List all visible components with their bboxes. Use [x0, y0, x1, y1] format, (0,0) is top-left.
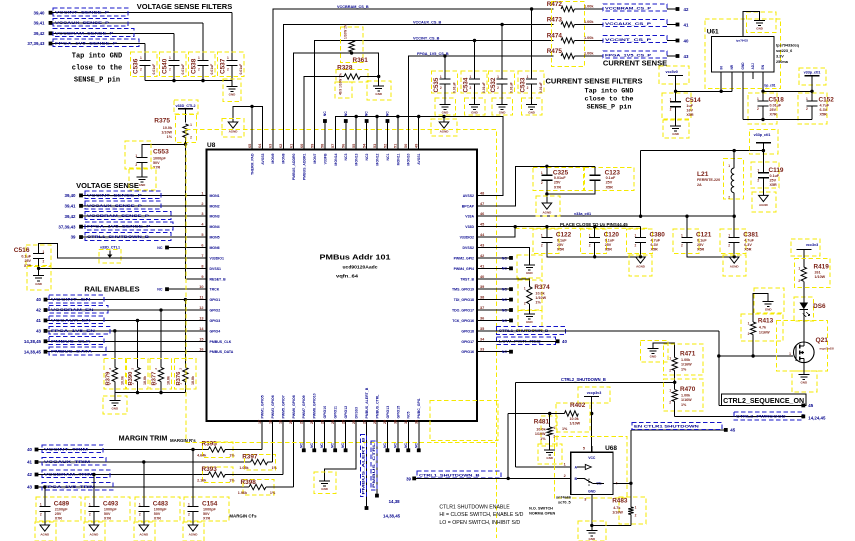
analog ground below	[134, 522, 155, 541]
svg-text:close to the: close to the	[72, 65, 122, 73]
svg-text:AGND: AGND	[229, 129, 239, 133]
analog ground below C325	[546, 180, 548, 203]
svg-text:5: 5	[201, 233, 203, 237]
svg-text:39: 39	[71, 235, 76, 240]
ground	[465, 98, 486, 115]
svg-text:10.0k: 10.0k	[120, 376, 124, 385]
svg-text:30: 30	[394, 420, 398, 424]
svg-text:65: 65	[248, 144, 252, 148]
svg-text:38: 38	[480, 296, 484, 300]
svg-text:1/10W: 1/10W	[535, 432, 546, 436]
svg-text:PMBUS_ALERT_B: PMBUS_ALERT_B	[365, 387, 369, 418]
svg-text:VCC: VCC	[588, 456, 596, 460]
svg-text:2: 2	[89, 512, 91, 516]
capacitor C154 1000pF	[184, 497, 229, 521]
svg-text:39,41: 39,41	[34, 21, 46, 26]
svg-text:3: 3	[201, 212, 203, 216]
svg-text:NC: NC	[323, 111, 327, 116]
svg-text:1: 1	[589, 233, 591, 237]
svg-text:1%: 1%	[272, 466, 278, 470]
svg-text:2: 2	[40, 512, 42, 516]
svg-text:NC1: NC1	[386, 153, 390, 160]
svg-text:59: 59	[310, 144, 314, 148]
svg-text:42: 42	[27, 472, 32, 477]
svg-text:DS6: DS6	[813, 303, 826, 310]
svg-text:R374: R374	[534, 284, 550, 291]
pullup ground rail	[115, 392, 186, 394]
svg-text:250ma: 250ma	[776, 60, 789, 64]
svg-text:45: 45	[730, 428, 735, 433]
svg-text:R397: R397	[242, 453, 258, 460]
svg-text:X7R: X7R	[55, 517, 63, 521]
svg-text:X7R: X7R	[770, 113, 778, 117]
svg-text:GPIO16: GPIO16	[461, 350, 474, 354]
svg-text:63: 63	[269, 144, 273, 148]
svg-text:0.01uF: 0.01uF	[539, 82, 543, 93]
capacitor C483 1000pF	[135, 497, 180, 521]
svg-text:R377: R377	[152, 372, 158, 386]
svg-text:43: 43	[36, 328, 41, 333]
svg-text:20: 20	[289, 420, 293, 424]
svg-text:MON10: MON10	[407, 153, 411, 165]
svg-text:VCCINT_TRIM: VCCINT_TRIM	[44, 447, 89, 452]
capacitor C516 0.1uF	[26, 245, 51, 266]
svg-text:TCK_GPIO16: TCK_GPIO16	[452, 319, 474, 323]
svg-text:2100pF: 2100pF	[55, 507, 68, 511]
svg-text:C533: C533	[520, 77, 527, 92]
resistor R397 1.05k	[245, 455, 276, 471]
svg-text:U8: U8	[207, 142, 216, 149]
svg-text:NC2: NC2	[365, 153, 369, 160]
svg-text:2: 2	[541, 243, 543, 247]
bottom NC pins	[303, 421, 305, 450]
svg-text:PWM5_GPIO7: PWM5_GPIO7	[281, 395, 285, 418]
svg-text:MON5: MON5	[210, 236, 220, 240]
analog ground below C119	[752, 192, 776, 212]
svg-text:37: 37	[480, 306, 484, 310]
svg-text:1%: 1%	[535, 301, 541, 305]
svg-text:40: 40	[480, 275, 484, 279]
capacitor C532 0.01uF	[500, 23, 503, 26]
wire U61 pins down	[720, 72, 722, 91]
svg-text:NC: NC	[414, 443, 418, 448]
svg-text:27: 27	[362, 420, 366, 424]
svg-text:X7R: X7R	[203, 517, 211, 521]
capacitor C538 0.01uF	[189, 52, 216, 77]
svg-text:MON1: MON1	[210, 194, 220, 198]
svg-text:R361: R361	[353, 57, 369, 64]
svg-text:NC: NC	[331, 443, 335, 448]
svg-text:18.8k: 18.8k	[191, 376, 195, 385]
svg-text:MARGIN R's: MARGIN R's	[170, 438, 196, 443]
svg-text:6: 6	[201, 244, 203, 248]
svg-text:0.01uF: 0.01uF	[482, 82, 486, 93]
svg-text:40: 40	[562, 339, 567, 344]
svg-text:NC: NC	[157, 246, 163, 250]
svg-text:MARGIN TRIM: MARGIN TRIM	[119, 433, 168, 442]
svg-text:NC: NC	[502, 288, 508, 292]
svg-text:19: 19	[279, 420, 283, 424]
svg-text:37,39,43: 37,39,43	[27, 41, 45, 46]
svg-text:NC5: NC5	[407, 411, 411, 418]
svg-text:42: 42	[36, 308, 41, 313]
svg-text:MON8: MON8	[282, 153, 286, 163]
svg-text:2: 2	[527, 86, 529, 90]
svg-text:1000pF: 1000pF	[104, 507, 117, 511]
wire	[231, 13, 233, 61]
svg-text:DVSS1: DVSS1	[210, 267, 222, 271]
svg-text:1.00k: 1.00k	[681, 358, 691, 362]
svg-text:1/16W: 1/16W	[759, 331, 770, 335]
svg-text:TDO_GPIO17: TDO_GPIO17	[452, 309, 474, 313]
svg-text:5: 5	[583, 446, 585, 450]
svg-text:9: 9	[201, 275, 203, 279]
wire	[51, 32, 175, 34]
DVSS3 pin 26 to ground	[325, 421, 356, 481]
svg-text:GPIO17: GPIO17	[461, 340, 474, 344]
resistor R483 4.7k	[619, 497, 646, 524]
net VCCBRAM_CS_P	[603, 4, 667, 11]
net EN_CTLR1_SHUTDOWN	[630, 430, 632, 483]
svg-text:2: 2	[188, 512, 190, 516]
wire BPCAP pin 47	[477, 166, 595, 206]
svg-text:35: 35	[480, 327, 484, 331]
svg-text:50: 50	[404, 144, 408, 148]
svg-text:SENSE_P pin: SENSE_P pin	[587, 104, 632, 112]
svg-text:v33D_CTL1: v33D_CTL1	[100, 245, 120, 249]
analog ground arrow on AVSS line	[442, 115, 445, 118]
svg-text:2: 2	[589, 243, 591, 247]
svg-text:37,39,43: 37,39,43	[58, 224, 76, 229]
svg-text:39,42: 39,42	[34, 31, 46, 36]
wire	[144, 66, 146, 81]
svg-text:1000pF: 1000pF	[154, 507, 167, 511]
svg-text:TRCK: TRCK	[210, 288, 220, 292]
svg-text:1: 1	[806, 97, 808, 101]
svg-text:NORM& OPEN: NORM& OPEN	[529, 511, 555, 515]
svg-text:CURRENT SENSE: CURRENT SENSE	[603, 58, 667, 67]
wire AVSS pin	[376, 117, 378, 150]
resistor R398 1.96k	[243, 480, 274, 496]
svg-text:AGND: AGND	[89, 532, 99, 536]
svg-text:HI = CLOSE SWITCH, ENABLE S/D: HI = CLOSE SWITCH, ENABLE S/D	[439, 512, 523, 518]
wire CTRL2_SHUTDOWN_B to U68 pin A	[514, 382, 516, 467]
wire	[184, 382, 186, 393]
svg-text:GND: GND	[471, 111, 479, 115]
svg-text:47: 47	[480, 202, 484, 206]
wire AVSS pin	[355, 117, 357, 150]
svg-text:MON13: MON13	[355, 153, 359, 165]
capacitor C121 0.1uF	[673, 229, 699, 254]
svg-text:43: 43	[684, 54, 689, 59]
svg-text:AGND: AGND	[40, 532, 50, 536]
svg-text:2: 2	[440, 86, 442, 90]
svg-text:NC: NC	[320, 443, 324, 448]
svg-text:1: 1	[190, 123, 192, 127]
svg-text:N.O. SWITCH: N.O. SWITCH	[529, 506, 553, 510]
svg-text:40: 40	[684, 38, 689, 43]
svg-text:GPIO13: GPIO13	[386, 406, 390, 419]
svg-text:TDI_GPIO18: TDI_GPIO18	[454, 298, 474, 302]
wire	[173, 33, 175, 60]
svg-text:V33DIO2: V33DIO2	[460, 236, 474, 240]
ground at R471 top	[641, 341, 669, 363]
svg-text:2: 2	[201, 202, 203, 206]
svg-text:61: 61	[289, 144, 293, 148]
svg-text:R475: R475	[547, 48, 563, 55]
wire V33DIO1 pin 7	[39, 244, 207, 258]
svg-text:X7R: X7R	[24, 264, 32, 268]
wire AVSS pin	[397, 117, 399, 150]
svg-text:1: 1	[728, 233, 730, 237]
analog ground below C380	[629, 255, 652, 276]
ground above R413	[753, 294, 768, 322]
svg-text:v33a_ctl1: v33a_ctl1	[574, 212, 591, 216]
svg-text:1/10W: 1/10W	[570, 422, 581, 426]
svg-text:2: 2	[135, 163, 137, 167]
capacitor C123 0.1uF	[585, 168, 635, 191]
THERM_PAD AVSS3 to analog ground	[251, 106, 253, 149]
svg-text:1.00k: 1.00k	[681, 394, 691, 398]
wire U68 OE to R483	[613, 482, 631, 484]
analog ground below	[35, 522, 56, 541]
svg-text:AGND: AGND	[730, 264, 740, 268]
svg-text:NC: NC	[383, 443, 387, 448]
svg-text:tps79433dcq: tps79433dcq	[776, 44, 800, 48]
svg-text:R413: R413	[758, 317, 774, 324]
svg-text:11: 11	[199, 296, 203, 300]
svg-text:1/16W: 1/16W	[612, 511, 623, 515]
svg-text:GND: GND	[526, 320, 534, 324]
svg-text:4.64k: 4.64k	[197, 453, 207, 457]
svg-text:1: 1	[670, 98, 672, 102]
svg-text:8: 8	[201, 264, 203, 268]
U68 buffer and switch glyphs	[577, 466, 585, 468]
IC U8 PMBus controller body	[207, 150, 478, 422]
svg-text:39,40: 39,40	[65, 193, 77, 198]
svg-text:1: 1	[135, 154, 137, 158]
svg-text:3.3V: 3.3V	[776, 55, 784, 59]
svg-text:1: 1	[635, 506, 637, 510]
svg-text:45: 45	[808, 403, 813, 408]
svg-text:R474: R474	[547, 32, 563, 39]
svg-text:C534: C534	[463, 77, 470, 92]
svg-text:VCCINT_CS_P: VCCINT_CS_P	[605, 37, 652, 42]
svg-text:14,38,45: 14,38,45	[383, 514, 401, 519]
svg-text:MON3: MON3	[210, 215, 220, 219]
ground	[367, 81, 391, 100]
capacitor C514 1uF	[662, 93, 691, 119]
svg-text:62: 62	[279, 144, 283, 148]
svg-text:2: 2	[43, 260, 45, 264]
svg-text:PMBUS_CTRL: PMBUS_CTRL	[375, 394, 379, 419]
svg-text:43: 43	[27, 485, 32, 490]
svg-text:VCCBRAM_SENSE_P: VCCBRAM_SENSE_P	[55, 30, 114, 35]
svg-text:PWM6_GPIO8: PWM6_GPIO8	[292, 395, 296, 418]
svg-text:GND: GND	[229, 93, 237, 97]
svg-text:X5R: X5R	[744, 248, 752, 252]
svg-text:PWM8_GPIO10: PWM8_GPIO10	[313, 393, 317, 418]
svg-text:PMBC_GPI1: PMBC_GPI1	[417, 398, 421, 418]
svg-text:7: 7	[201, 254, 203, 258]
svg-text:AVSS2: AVSS2	[463, 194, 474, 198]
svg-text:V33DIO1: V33DIO1	[210, 256, 224, 260]
svg-text:NC: NC	[341, 443, 345, 448]
svg-text:1: 1	[227, 56, 229, 60]
net PMBUS_CTRL pin 28	[376, 421, 378, 494]
svg-text:TRST_B: TRST_B	[460, 277, 474, 281]
svg-text:PWM4_GPI4: PWM4_GPI4	[454, 267, 474, 271]
svg-text:2: 2	[524, 302, 526, 306]
svg-text:1: 1	[40, 502, 42, 506]
capacitor C120 0.1uF	[581, 229, 607, 254]
svg-text:2: 2	[198, 68, 200, 72]
wire to chip pin	[268, 461, 273, 463]
svg-text:V33A: V33A	[465, 215, 474, 219]
resistor R379 pullup	[113, 329, 116, 332]
resistor divider R471	[653, 343, 675, 357]
svg-text:C516: C516	[14, 247, 30, 254]
svg-text:CURRENT SENSE FILTERS: CURRENT SENSE FILTERS	[546, 76, 643, 85]
svg-text:AGND: AGND	[542, 210, 552, 214]
U68 ground rail	[591, 494, 593, 525]
analog ground below	[84, 522, 105, 541]
svg-text:NC: NC	[385, 111, 389, 116]
svg-text:1: 1	[89, 502, 91, 506]
svg-text:52: 52	[383, 144, 387, 148]
svg-text:MON2: MON2	[210, 204, 220, 208]
svg-text:TMS_GPIO19: TMS_GPIO19	[452, 288, 474, 292]
ground below Q21	[792, 371, 817, 392]
svg-text:BPCAP: BPCAP	[462, 204, 475, 208]
svg-text:B: B	[575, 477, 578, 481]
svg-text:2: 2	[757, 107, 759, 111]
svg-text:X5R: X5R	[606, 185, 614, 189]
wire DVSS1 pin 8	[38, 259, 40, 269]
current sense resistors R472-R475	[552, 2, 585, 67]
svg-text:2: 2	[564, 474, 566, 478]
svg-text:PMBUS_CTRL: PMBUS_CTRL	[372, 441, 376, 488]
svg-text:NC3: NC3	[344, 153, 348, 160]
svg-text:2: 2	[728, 196, 730, 200]
svg-text:29: 29	[383, 420, 387, 424]
svg-text:CTRL2_PWRGOOD: CTRL2_PWRGOOD	[736, 414, 786, 419]
resistor R377 pullup	[159, 308, 162, 311]
svg-text:GND: GND	[321, 487, 329, 491]
net CTRL2_PWRGOOD	[674, 402, 676, 417]
svg-text:PMBUS_ALERT_B: PMBUS_ALERT_B	[362, 437, 366, 495]
svg-text:R375: R375	[154, 118, 170, 125]
svg-text:2: 2	[227, 68, 229, 72]
svg-text:MARGIN Cf's: MARGIN Cf's	[229, 514, 257, 519]
svg-text:GND: GND	[672, 132, 680, 136]
svg-text:FERRITE-220: FERRITE-220	[697, 178, 720, 182]
svg-text:AGND: AGND	[139, 532, 149, 536]
resistor R393 2.16k	[202, 467, 233, 483]
svg-text:41: 41	[684, 22, 689, 27]
wire C121 ground to C381 AGND	[687, 243, 734, 257]
svg-text:0.1uF: 0.1uF	[697, 238, 707, 242]
svg-text:12: 12	[199, 306, 203, 310]
svg-text:1: 1	[188, 502, 190, 506]
svg-text:sot223_6: sot223_6	[776, 49, 792, 53]
svg-text:56: 56	[342, 144, 346, 148]
svg-text:10: 10	[199, 285, 203, 289]
svg-text:1: 1	[789, 352, 791, 356]
svg-text:R419: R419	[814, 263, 830, 270]
wire	[144, 44, 146, 61]
svg-text:AGND: AGND	[189, 532, 199, 536]
ground below C514	[663, 120, 689, 138]
svg-text:U68: U68	[605, 445, 617, 452]
svg-text:45: 45	[480, 223, 484, 227]
svg-text:NC: NC	[502, 267, 508, 271]
svg-text:1: 1	[169, 56, 171, 60]
svg-text:MON14: MON14	[334, 153, 338, 165]
capacitor C325 0.01uF	[533, 168, 584, 191]
svg-text:X5R: X5R	[651, 248, 659, 252]
svg-text:6.3V: 6.3V	[651, 243, 659, 247]
wire v33D vertical rail to pin 9	[185, 144, 187, 278]
svg-text:NC: NC	[502, 256, 508, 260]
svg-text:51: 51	[394, 144, 398, 148]
svg-text:MON9: MON9	[271, 153, 275, 163]
svg-text:FPGA_1V5_TRIM: FPGA_1V5_TRIM	[44, 484, 96, 489]
svg-text:MON6: MON6	[210, 246, 220, 250]
ground	[435, 98, 456, 115]
mosfet Q21	[777, 321, 828, 372]
ground GND below C537	[223, 79, 241, 102]
svg-text:1.00k: 1.00k	[584, 36, 594, 40]
right side NC pins	[477, 257, 511, 259]
svg-text:VCCINT_EN: VCCINT_EN	[51, 297, 91, 302]
svg-text:GND: GND	[35, 282, 43, 286]
svg-text:0.01uF: 0.01uF	[239, 64, 243, 75]
svg-text:0.01uF: 0.01uF	[452, 82, 456, 93]
svg-text:40: 40	[27, 447, 32, 452]
capacitor C533 0.01uF	[530, 7, 533, 10]
svg-text:GND: GND	[528, 111, 536, 115]
svg-text:1%: 1%	[681, 367, 687, 371]
svg-text:1: 1	[635, 233, 637, 237]
svg-text:25V: 25V	[770, 108, 777, 112]
svg-text:PMBus Addr 101: PMBus Addr 101	[320, 253, 391, 262]
svg-text:6.3V: 6.3V	[820, 108, 828, 112]
svg-text:R471: R471	[680, 350, 696, 357]
svg-text:EN: EN	[761, 64, 765, 69]
svg-text:tps79433: tps79433	[736, 39, 748, 43]
wire	[114, 382, 116, 393]
svg-text:PMBUS_CLK: PMBUS_CLK	[51, 338, 91, 343]
svg-text:39,40: 39,40	[34, 10, 46, 15]
svg-text:X5R: X5R	[770, 183, 778, 187]
svg-text:1: 1	[440, 75, 442, 79]
inductor L21 FERRITE-220	[724, 159, 744, 200]
LED DS6	[794, 297, 814, 321]
svg-text:1: 1	[757, 97, 759, 101]
ground	[492, 98, 512, 115]
capacitor C381 4.7uF	[720, 229, 746, 254]
svg-text:1: 1	[524, 287, 526, 291]
svg-text:14,38: 14,38	[389, 499, 401, 504]
wire to chip pin	[266, 486, 293, 488]
svg-text:0.01uF: 0.01uF	[210, 64, 214, 75]
svg-text:NC: NC	[393, 443, 397, 448]
svg-text:VCCBRAM_EN: VCCBRAM_EN	[51, 307, 94, 312]
ground below C516	[27, 267, 51, 291]
svg-text:C535: C535	[433, 77, 440, 92]
U8 yellow highlight box	[186, 130, 497, 443]
